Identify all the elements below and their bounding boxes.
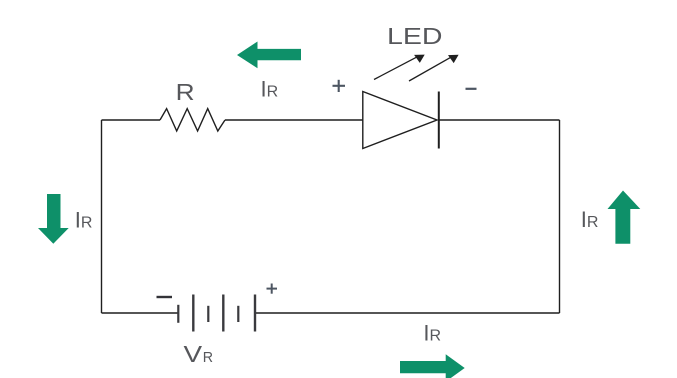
minus sign at LED cathode [466, 88, 477, 90]
current arrow down-pointing (left) [38, 194, 69, 244]
battery minus sign [157, 296, 173, 298]
wire bottom-right segment [256, 312, 560, 314]
wire bottom-left segment [102, 312, 179, 314]
wire left side [101, 120, 103, 313]
wire top-right segment [439, 119, 560, 121]
LED light-emission arrow 2 [409, 55, 459, 81]
resistor R [160, 109, 225, 131]
plus sign at LED anode [333, 80, 346, 92]
current arrow up-pointing (right) [608, 191, 641, 244]
svg-text:R: R [176, 79, 195, 105]
current arrow right-pointing (bottom) [400, 354, 465, 378]
wire top-left segment [102, 119, 161, 121]
svg-text:LED: LED [387, 23, 443, 49]
LED light-emission arrow 1 [374, 55, 425, 80]
battery plus sign [267, 284, 278, 294]
LED D1 triangle (anode) [363, 92, 437, 149]
wire top-middle segment [225, 119, 363, 121]
battery VR plates [178, 295, 255, 332]
wire right side [559, 120, 561, 313]
current arrow left-pointing (top) [237, 42, 301, 69]
LED D1 cathode bar [438, 92, 440, 149]
